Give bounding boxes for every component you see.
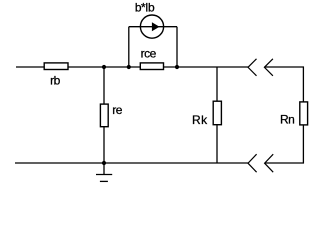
wire current-source loop right leg (176, 27, 178, 67)
current source arrow triangle (152, 22, 160, 31)
wire top main (16, 66, 248, 68)
ground (96, 163, 112, 181)
wire Rk branch vertical (216, 67, 218, 163)
wire right loop (top, right side, bottom) (264, 67, 303, 163)
wire bottom main (15, 162, 248, 164)
current source U1 b*Ib circle (140, 15, 163, 38)
resistor Rk body (213, 101, 221, 125)
connector arrow top left chevron (248, 59, 257, 76)
node junction dot top-left (re tap) (102, 65, 106, 69)
node junction dot loop right (175, 65, 179, 69)
connector arrow top right chevron (264, 59, 273, 76)
connector arrow bottom left chevron (248, 154, 257, 172)
svg-text:rce: rce (141, 46, 157, 60)
svg-text:Rn: Rn (280, 113, 294, 127)
wire current-source loop top (through circle) (129, 26, 177, 28)
resistor Rn body (300, 102, 308, 125)
resistor rce body (140, 63, 163, 70)
wire current-source loop left leg (128, 27, 130, 67)
node junction dot loop left (127, 65, 131, 69)
svg-text:Rk: Rk (192, 113, 208, 127)
svg-text:re: re (112, 103, 122, 117)
resistor rb body (44, 63, 68, 70)
svg-text:rb: rb (50, 73, 60, 87)
svg-text:b*Ib: b*Ib (135, 0, 155, 14)
resistor re body (100, 104, 108, 127)
wire re branch vertical (103, 67, 105, 163)
connector arrow bottom right chevron (265, 154, 274, 172)
node junction dot bottom (ground tap) (102, 161, 106, 165)
